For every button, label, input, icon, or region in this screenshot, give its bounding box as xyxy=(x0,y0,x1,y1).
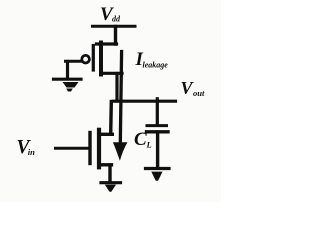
svg-text:leakage: leakage xyxy=(143,61,169,70)
transistor M2 NMOS channel bar xyxy=(97,130,101,168)
wire NMOS gate xyxy=(56,147,89,150)
node Vout wire xyxy=(114,100,176,103)
wire NMOS drain vertical xyxy=(109,102,113,135)
wire NMOS source arm xyxy=(100,163,112,166)
ground (CL) xyxy=(146,169,170,181)
capacitor CL top stub xyxy=(156,99,159,125)
current arrow I_leakage xyxy=(113,52,128,161)
transistor M1 PMOS gate bubble xyxy=(82,55,90,63)
transistor M2 NMOS gate bar xyxy=(88,133,91,164)
wire Vdd to PMOS source xyxy=(114,27,117,45)
svg-text:in: in xyxy=(28,147,35,157)
transistor M1 PMOS gate bar xyxy=(92,46,95,71)
wire NMOS drain arm xyxy=(100,133,112,136)
ground (PMOS gate) xyxy=(54,79,82,91)
wire PMOS drain vertical xyxy=(115,74,118,102)
wire PMOS gate xyxy=(66,60,82,63)
wire NMOS source drop xyxy=(108,165,111,181)
label I_leakage xyxy=(135,49,169,70)
wire gate to ground drop xyxy=(66,62,69,79)
svg-text:dd: dd xyxy=(112,15,121,24)
capacitor CL bottom stub xyxy=(156,132,159,167)
label Vout xyxy=(181,78,205,98)
Vdd rail xyxy=(93,25,136,28)
label CL xyxy=(134,129,152,150)
capacitor CL plates xyxy=(147,126,169,132)
ground (NMOS source) xyxy=(101,183,121,192)
label Vin xyxy=(17,137,36,158)
label Vdd xyxy=(100,4,121,25)
svg-text:C: C xyxy=(134,129,147,150)
wire PMOS drain arm xyxy=(101,72,122,75)
svg-text:L: L xyxy=(146,140,152,150)
transistor M1 PMOS channel bar xyxy=(99,43,103,75)
svg-text:out: out xyxy=(193,88,205,98)
transistor M1 PMOS source arm xyxy=(97,42,117,45)
